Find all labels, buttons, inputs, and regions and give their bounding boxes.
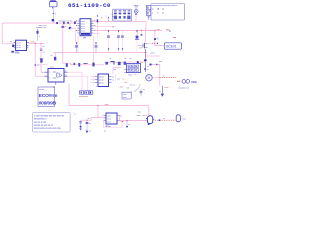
svg-text:xx xx: xx xx [99,80,104,82]
svg-text:x: x [55,14,56,16]
svg-text:xxxxx xxx: xxxxx xxx [39,27,47,29]
capacitor x96 [95,43,97,53]
IC U1 left [10,40,29,50]
resistor R10 [124,62,126,65]
connector circles [182,80,186,84]
U5 top wire [113,68,121,74]
fan of wires right of U2 [94,20,141,22]
svg-text:xxx xxx: xxx xxx [124,69,130,71]
svg-text:xxx,xx.x xxx: xxx,xx.x xxx [34,122,47,124]
svg-text:xx: xx [112,27,114,29]
svg-text:xxxxxxxxxxxx xxxx xxxxx xxxxx: xxxxxxxxxxxx xxxx xxxxx xxxxx xx [152,5,178,7]
capacitor C9 [140,89,142,97]
resistor R5 [73,63,75,65]
svg-text:xxx: xxx [159,61,162,63]
junction x127 [126,120,127,121]
resistor R2 [67,22,69,24]
svg-text:U?x: U?x [15,51,20,54]
svg-text:xx: xx [65,26,67,28]
wire U4 right to pill [120,115,148,120]
resistor R6 [78,63,80,67]
svg-text:xx: xx [135,74,137,76]
wire y33.6 stub [94,33,101,35]
resistor R4 [66,63,68,66]
capacitor C4 on x41 [40,59,42,63]
svg-text:xxxxx: xxxxx [164,87,169,89]
svg-text:x: x [137,33,138,35]
svg-text:xxxxxx: xxxxxx [39,89,44,91]
svg-text:xx: xx [139,85,141,87]
inductor L2 [110,61,114,64]
svg-text:xxxxxxxx xxx: xxxxxxxx xxx [178,88,189,90]
svg-text:ECO#rm: ECO#rm [39,93,58,99]
wire from stamp right down [69,84,148,106]
wires below U2 [77,36,79,53]
svg-text:xx: xx [43,52,45,54]
svg-text:xx: xx [43,46,45,48]
IC U5 [93,74,114,87]
svg-text:xx: xx [141,62,143,64]
right column jumpers [146,5,150,20]
wire mic down [52,8,54,22]
svg-text:xx: xx [10,41,12,43]
box BCE01 [164,43,181,49]
svg-text:xx: xx [89,123,91,125]
svg-text:651-1109-C0: 651-1109-C0 [68,2,111,9]
cap to gnd x80.6 [80,120,82,126]
capacitor C5 [54,57,56,61]
component band y63 [37,64,48,66]
svg-text:xxx: xxx [124,82,127,84]
svg-text:VDD: VDD [134,5,139,7]
VDD LED stack [134,5,139,21]
svg-text:Q?: Q? [139,48,142,50]
svg-text:xx: xx [65,74,67,76]
buzzer LS1 [146,69,152,81]
IC U4 [102,113,122,124]
svg-text:xxx: xxx [138,112,141,114]
svg-text:xx: xx [65,70,67,72]
svg-text:x: x [74,113,75,115]
pin 1 marker U1 [11,51,14,53]
stub x70 [69,23,71,27]
svg-text:xx: xx [128,124,130,126]
oscillator Y1 [48,69,64,83]
tick on dotted net [159,119,161,121]
svg-text:xx: xx [143,89,145,91]
svg-text:xx xx: xx xx [107,122,111,124]
svg-text:xxxx: xxxx [128,74,132,76]
svg-text:xxx: xxx [157,29,160,31]
svg-text:xx: xx [125,58,127,60]
IC relay grid K1 [127,64,141,73]
svg-text:xx: xx [159,91,161,93]
svg-text:xx: xx [112,76,114,78]
wire y62 to Q1 drain [127,61,146,63]
svg-text:xxxxx xxxx xx xxx xxxx xxx: xxxxx xxxx xx xxx xxxx xxx [34,128,62,130]
wire y30.5 right [140,29,162,31]
svg-text:xxxxxx/xxx x: xxxxxx/xxx x [34,119,47,121]
pins right [91,21,94,33]
node marker x155 [154,38,156,40]
Y1 pins [44,72,67,76]
jumper blocks [80,91,93,94]
long horizontal rail y53 [54,52,147,54]
svg-text:xx: xx [130,58,132,60]
svg-text:xx: xx [163,76,165,78]
svg-text:xx: xx [112,79,114,81]
wire x41 down [41,43,44,72]
wire down to IC4 area [97,106,99,118]
svg-text:xx: xx [163,118,165,120]
resistor R8 [105,62,108,65]
wire x62 down [63,24,104,65]
drop x55 with cap [54,53,56,57]
wire to BCE01 [155,30,165,45]
buzzer output [152,77,157,79]
svg-text:xx: xx [104,130,106,132]
ground right [161,86,163,94]
svg-text:xx: xx [147,66,149,68]
svg-text:x.xx/x xxxxxxx xxx xxx xxxx xx: x.xx/x xxxxxxx xxx xxx xxxx xx [34,116,65,118]
wire y64.5 to x160 down [150,65,160,86]
wire top-left loop [2,23,53,44]
svg-text:xxx: xxx [117,79,120,81]
capacitor C2 [69,27,71,29]
svg-text:xx xx: xx xx [99,83,104,85]
svg-text:xx: xx [157,38,159,40]
ferrite FB1 [62,23,63,27]
revision table top right [151,4,185,21]
node tick [53,12,55,15]
svg-text:xx xx: xx xx [17,47,21,49]
pill jack J2 [176,115,180,122]
capacitor C6 on x97.5 [97,19,99,22]
svg-text:xxxx: xxxx [150,52,154,54]
svg-text:xxx: xxx [114,69,117,71]
svg-text:xx: xx [122,79,124,81]
svg-text:xx: xx [37,65,39,67]
svg-text:xx: xx [51,55,53,57]
microphone MK1 top [49,0,57,8]
wire U1 right [29,42,44,44]
loop under U4 [103,121,122,128]
capacitor on x62 [61,26,64,27]
notes text block [33,113,71,132]
vertical caps to rail y53 [107,30,139,52]
wires into U5 left [91,77,95,83]
dashed group box [112,9,132,21]
svg-text:xx: xx [147,69,149,71]
net stub red right [173,37,176,39]
callout leader line [135,87,140,92]
svg-text:BCE01: BCE01 [166,45,176,49]
svg-text:xxxx/x.xx xxx.xx xx: xxxx/x.xx xxx.xx xx [34,125,54,127]
svg-text:xx: xx [101,17,103,19]
wire y56 right [146,55,160,57]
svg-text:x: x [121,121,122,123]
svg-text:xx: xx [89,131,91,133]
svg-text:xx: xx [120,115,122,117]
svg-text:VGG: VGG [191,80,197,84]
junction blob x145 [144,59,147,61]
svg-text:xxxx: xxxx [105,104,109,106]
svg-text:xxx xxxxxx: xxx xxxxxx [79,96,88,98]
pins right [27,43,30,48]
inductor L1 [83,63,87,65]
resistor R9 [118,62,121,65]
junction x98 y105 [97,105,98,106]
svg-text:xxxxxxx x xx xxx: xxxxxxx x xx xxx [59,20,73,22]
svg-text:xx xx: xx xx [81,31,85,33]
pins left [14,43,16,48]
IC U2 tall [76,19,95,36]
resistor R3 [74,21,76,24]
part outline box [122,92,131,99]
svg-text:xxx xx: xxx xx [130,85,135,87]
dotted to pill2 [155,119,176,121]
pins left [78,21,81,33]
svg-text:009/09B: 009/09B [39,101,57,107]
cap to gnd x87 [86,120,88,130]
right top net [140,21,146,29]
wire row to U2 [53,22,77,24]
svg-text:xxxx: xxxx [50,67,54,69]
band continues y62.5 [104,62,127,64]
svg-text:xxx: xxx [127,87,130,89]
resistor R1 [56,22,58,24]
wire x35 down [35,43,44,76]
svg-text:xx xx: xx xx [107,119,111,121]
svg-text:xxxx: xxxx [119,87,123,89]
svg-text:xx: xx [112,16,114,18]
capacitor x76.5 [76,43,78,53]
wires Y1 to select jumpers [68,72,82,91]
svg-text:xx: xx [110,58,112,60]
wire x75 down [70,29,75,42]
svg-text:x: x [75,114,76,116]
svg-text:xx: xx [27,45,29,47]
wire pill top [147,106,150,116]
svg-text:xx xx: xx xx [99,77,104,79]
svg-text:xx: xx [88,118,90,120]
ECO stamp box [38,87,58,107]
svg-text:xxx xx: xxx xx [124,72,129,74]
transistor Q1 [138,28,158,72]
capacitor C20 [52,19,55,21]
svg-text:xxxx: xxxx [123,97,127,99]
svg-text:xx xx: xx xx [107,116,111,118]
resistor R7 [92,63,94,67]
node dot mid [35,64,36,65]
pill jack J1 [146,116,154,125]
